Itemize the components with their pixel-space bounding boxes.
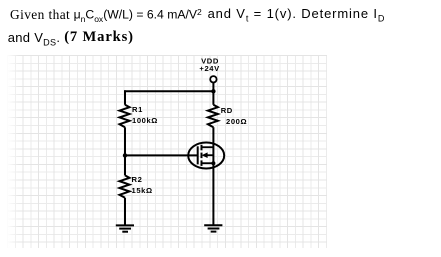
title line 1: [10, 7, 70, 23]
resistor R2: [120, 175, 130, 197]
wire top node to RD: [212, 91, 214, 105]
svg-text:R2: R2: [132, 175, 143, 184]
svg-text:R1: R1: [132, 105, 143, 114]
transistor Q1 body bar with arrow: [204, 154, 213, 156]
wire RD to drain / source to ground rail: [212, 127, 214, 225]
wire R1 to gate node: [124, 127, 126, 155]
wire top node to R1: [124, 90, 126, 105]
svg-text:15kΩ: 15kΩ: [132, 186, 153, 195]
svg-text:RD: RD: [221, 106, 233, 115]
transistor Q1 arrowhead: [202, 152, 208, 158]
ground right: [204, 225, 222, 231]
svg-text:100kΩ: 100kΩ: [132, 116, 158, 125]
wire VDD terminal to top node: [212, 83, 214, 92]
title line 2: [8, 30, 61, 48]
power terminal VDD: [210, 76, 216, 82]
svg-text:200Ω: 200Ω: [226, 117, 247, 126]
grid left fade: [7, 55, 19, 248]
junction source-body: [211, 161, 215, 165]
svg-text:+24V: +24V: [199, 64, 220, 73]
transistor Q1 gate plate: [197, 146, 199, 164]
resistor R1: [120, 105, 130, 128]
transistor Q1 source bar: [202, 162, 214, 164]
grid paper background: [7, 55, 327, 248]
junction top node: [211, 89, 215, 93]
wire gate horizontal: [125, 154, 198, 156]
transistor Q1 drain bar: [202, 146, 214, 148]
transistor Q1 channel dashes: [201, 145, 203, 166]
wire gate node to R2: [124, 155, 126, 175]
resistor RD: [208, 105, 218, 128]
ground left: [116, 225, 134, 231]
wire top horizontal: [124, 90, 213, 92]
wire R2 to ground: [124, 198, 126, 226]
transistor Q1 body circle: [188, 143, 224, 169]
junction gate node: [123, 153, 127, 157]
